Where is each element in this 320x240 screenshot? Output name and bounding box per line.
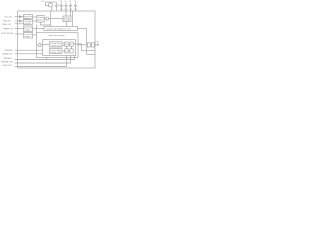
sub block S6 — [70, 49, 73, 53]
wire P3 out — [33, 28, 45, 30]
buffer B1a — [20, 16, 22, 18]
wire pin4 — [15, 28, 24, 30]
input block P1 — [24, 15, 33, 20]
vco circle — [46, 17, 49, 20]
sub block S2 — [50, 49, 63, 54]
wire P2 out — [33, 20, 37, 22]
wire comp out — [41, 44, 42, 46]
svg-text:C3: C3 — [60, 1, 62, 3]
svg-text:XTAL IN: XTAL IN — [3, 20, 11, 23]
output driver box B — [91, 43, 94, 47]
wire S1-S3 b — [62, 44, 65, 46]
wire out-bottom3 — [15, 56, 67, 67]
svg-text:SENSE OUT: SENSE OUT — [1, 62, 14, 64]
wire comp-S1 — [43, 44, 50, 46]
sub block S3 — [65, 42, 68, 46]
svg-text:C5: C5 — [69, 1, 71, 3]
IC outer box U1 — [18, 11, 96, 68]
wire pin1 — [15, 16, 24, 18]
buffer B1b — [20, 20, 22, 22]
logic wide block U4 — [44, 27, 78, 31]
wire S3-S5 — [66, 46, 68, 49]
svg-text:Logic: Logic — [24, 30, 30, 32]
svg-text:Clock Gen: Clock Gen — [50, 45, 61, 47]
svg-text:Control Logic Sequencer Unit: Control Logic Sequencer Unit — [46, 28, 71, 31]
svg-text:GND OUT: GND OUT — [3, 65, 13, 67]
svg-text:Output Driver Stage: Output Driver Stage — [48, 34, 65, 37]
svg-text:SENSE 1: SENSE 1 — [4, 58, 14, 60]
wire S1-S3 a — [62, 42, 65, 44]
input block P2 — [24, 20, 33, 25]
wire vertical x36.6 — [36, 25, 38, 33]
sub block S4 — [70, 42, 73, 46]
svg-text:1uF: 1uF — [60, 9, 63, 11]
wire to U3 — [49, 18, 63, 20]
wire pin6 — [15, 49, 43, 51]
wire P1 out — [33, 16, 37, 18]
sub block S1 — [50, 42, 63, 47]
svg-text:TEST MODE: TEST MODE — [1, 33, 14, 35]
svg-text:C1: C1 — [42, 1, 44, 3]
wire pin3 — [15, 23, 24, 25]
svg-text:Drive Ctrl: Drive Ctrl — [50, 51, 61, 54]
svg-text:XTAL OUT: XTAL OUT — [2, 23, 13, 26]
wire C1-X1 — [45, 5, 49, 7]
output arrow — [94, 44, 98, 46]
svg-text:C4: C4 — [64, 1, 66, 3]
capacitor C5 — [70, 3, 72, 6]
wire U2 bottom — [41, 22, 51, 25]
svg-text:1uF: 1uF — [74, 9, 77, 11]
svg-text:DATA OUT: DATA OUT — [3, 53, 14, 56]
wire output — [78, 44, 88, 46]
svg-text:RESET IN: RESET IN — [3, 28, 13, 30]
wire output mid — [90, 44, 91, 46]
svg-text:Circuit: Circuit — [24, 22, 31, 25]
svg-text:1uF: 1uF — [64, 9, 67, 11]
wire stub — [46, 58, 48, 60]
wire pin7 — [15, 53, 43, 55]
wire S2-S5 — [62, 50, 65, 52]
wire right2 — [87, 53, 96, 55]
svg-text:Buffer: Buffer — [24, 17, 31, 20]
wire vertical x72 — [72, 11, 74, 27]
capacitor C1 — [44, 2, 46, 6]
big block U5 — [37, 33, 79, 58]
svg-text:Genrtr: Genrtr — [37, 18, 44, 21]
osc block U2 — [37, 16, 45, 23]
svg-text:C6: C6 — [74, 1, 76, 3]
wire out-bottom2 — [15, 56, 71, 64]
wire S3-S4 — [68, 43, 70, 45]
wire U3 down — [66, 22, 68, 27]
input block P3 — [24, 26, 33, 32]
wire vertical — [50, 11, 52, 27]
capacitor C4 — [65, 3, 67, 6]
capacitor C3 — [61, 3, 63, 6]
svg-text:VCC IN: VCC IN — [4, 17, 12, 19]
svg-text:C2: C2 — [58, 5, 60, 7]
wire S4-S6 — [71, 46, 73, 49]
output driver box A — [87, 43, 90, 47]
svg-text:1uF: 1uF — [69, 9, 72, 11]
wire B3edge-comp — [37, 44, 38, 46]
svg-text:Regultr: Regultr — [64, 19, 71, 22]
svg-text:DATA IN: DATA IN — [5, 49, 13, 52]
comparator circle — [38, 44, 41, 47]
wire pin5 — [15, 33, 24, 35]
sub block S5 — [65, 49, 68, 53]
inner block U6 — [43, 40, 76, 56]
wire S5-S6 — [68, 50, 70, 52]
wire U4 out right — [78, 29, 87, 55]
input block P4 — [24, 33, 33, 39]
wire U2 out — [44, 18, 46, 20]
capacitor C2 — [55, 2, 57, 5]
capacitor C6 — [75, 3, 77, 6]
wire out-bottom1 — [15, 56, 75, 60]
svg-text:Logic: Logic — [24, 36, 30, 38]
wire P4 out — [33, 34, 37, 36]
wire right1 — [73, 44, 95, 50]
wire pin2 — [15, 20, 24, 22]
regulator block U3 — [63, 16, 71, 22]
crystal X1 — [49, 3, 52, 7]
